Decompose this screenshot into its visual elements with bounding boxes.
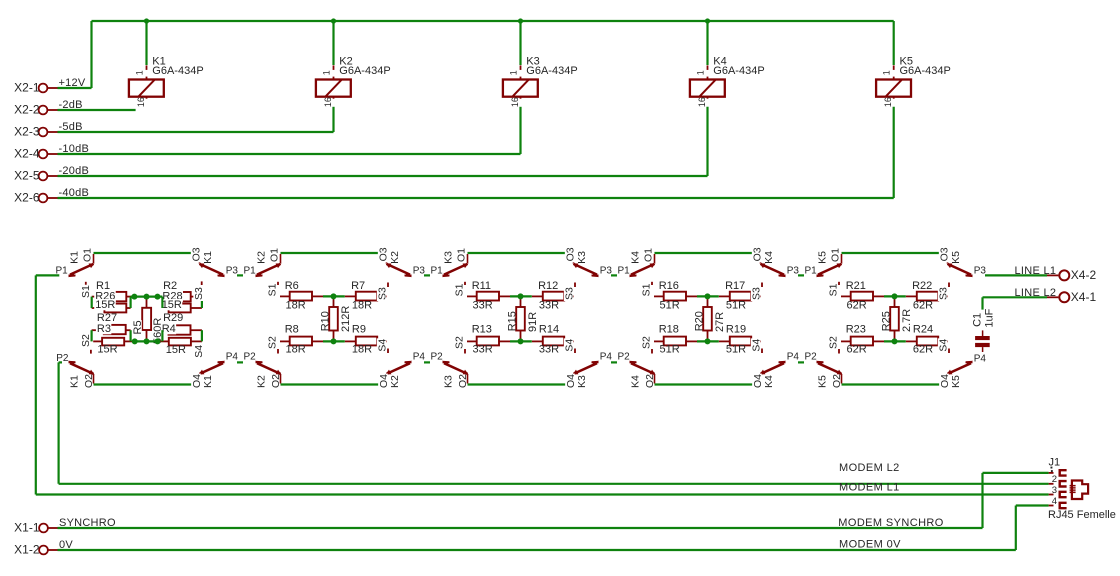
svg-text:X2-1: X2-1 (14, 81, 40, 95)
relay K1 coil box (129, 80, 164, 97)
relay contact K1 P3-O3 (218, 274, 225, 276)
net label S3 (377, 287, 387, 301)
svg-text:X2-5: X2-5 (14, 169, 40, 183)
wire node top (323, 295, 345, 297)
wire top rail cell K5 (842, 252, 948, 254)
svg-text:33R: 33R (539, 344, 559, 356)
connector X4-2 (1047, 274, 1058, 276)
relay K1 pin 16 label (137, 99, 148, 108)
svg-text:0V: 0V (59, 539, 73, 551)
relay K3 pin 16 (520, 97, 522, 107)
wire K4 coil drop (706, 21, 708, 65)
svg-text:S3: S3 (377, 287, 389, 300)
svg-text:1: 1 (882, 70, 892, 75)
svg-text:S4: S4 (751, 339, 763, 352)
svg-text:K3: K3 (443, 375, 455, 388)
wire K5 coil drop (893, 21, 895, 65)
relay K2 pin 1 (333, 65, 335, 79)
svg-text:RJ45 Femelle: RJ45 Femelle (1048, 509, 1116, 521)
net label S1 (641, 283, 651, 297)
wire node top (510, 295, 532, 297)
svg-text:P1: P1 (431, 265, 444, 276)
relay K2 pin 16 label (324, 99, 335, 108)
svg-text:X1-1: X1-1 (14, 521, 40, 535)
svg-text:K5: K5 (817, 251, 829, 264)
svg-text:K5: K5 (950, 375, 962, 388)
net label S3 (193, 287, 203, 301)
svg-text:33R: 33R (539, 300, 559, 312)
relay contact K3 P4-O4 (592, 361, 599, 363)
relay contact K5 P2-O2 (817, 361, 824, 363)
svg-text:MODEM L1: MODEM L1 (839, 482, 900, 494)
relay contact K4 P4-O4 (779, 361, 786, 363)
svg-text:K3: K3 (443, 251, 455, 264)
wire node bottom (884, 340, 906, 342)
svg-text:S2: S2 (266, 336, 278, 349)
svg-text:15R: 15R (95, 299, 115, 311)
relay contact K4 P2-O2 (630, 361, 637, 363)
svg-text:-5dB: -5dB (59, 121, 83, 133)
svg-text:X4-2: X4-2 (1071, 268, 1097, 282)
svg-text:R23: R23 (846, 323, 866, 335)
svg-text:G6A-434P: G6A-434P (900, 65, 951, 77)
net label S1 (454, 283, 464, 297)
net label S1 (267, 283, 277, 297)
wire P3-P1 link 4 (798, 274, 804, 276)
svg-text:R11: R11 (472, 280, 491, 292)
J1 pin 4 contact (1060, 503, 1067, 508)
J1 pin 3 contact (1060, 492, 1067, 497)
net label S2 (267, 336, 277, 350)
resistor R11 (467, 295, 477, 297)
relay contact K2 P3-O3 (405, 274, 412, 276)
svg-text:O4: O4 (378, 374, 390, 388)
svg-text:K1: K1 (69, 375, 81, 388)
relay K3 pin 1 (520, 65, 522, 79)
wire K1 coil drop (145, 21, 147, 65)
resistor pair R27/R3 leads (92, 329, 104, 331)
svg-text:P1: P1 (805, 265, 818, 276)
svg-text:16: 16 (136, 97, 146, 107)
wire pair connectors right (161, 297, 163, 308)
relay K4 coil box (690, 80, 725, 97)
svg-text:O1: O1 (829, 248, 841, 262)
label O3 (191, 247, 201, 262)
connector X2-1 (39, 84, 48, 93)
net stub S1 (85, 282, 87, 286)
resistor R18 (654, 340, 664, 342)
label O3 (378, 247, 388, 262)
svg-text:18R: 18R (352, 344, 372, 356)
net stub S2 (838, 349, 840, 354)
net label S2 (80, 334, 90, 348)
wire pair connectors bottom right (161, 330, 163, 341)
net stub S3 (387, 283, 389, 288)
resistor R21 (841, 295, 851, 297)
svg-text:P3: P3 (787, 265, 800, 276)
relay contact K1 P1-O1 (69, 274, 76, 276)
net stub S3 (761, 283, 763, 288)
resistor R1 (104, 292, 126, 301)
svg-text:LINE L1: LINE L1 (1015, 265, 1057, 277)
svg-text:X2-3: X2-3 (14, 125, 40, 139)
net label S4 (193, 345, 203, 359)
resistor pair R1/R26 leads (92, 296, 105, 298)
svg-text:2.7R: 2.7R (901, 309, 913, 332)
wire P1 feed from left (36, 274, 60, 276)
relay contact K1 P2-O2 (69, 361, 76, 363)
relay K5 pin 1 (893, 65, 895, 79)
wire K3 coil drop (519, 21, 521, 65)
svg-text:K1: K1 (202, 251, 214, 264)
svg-text:X2-2: X2-2 (14, 103, 40, 117)
svg-text:S2: S2 (640, 336, 652, 349)
relay K5 pin 16 label (885, 99, 896, 108)
svg-text:S1: S1 (80, 285, 92, 298)
svg-text:P3: P3 (226, 265, 239, 276)
connector X2-2 (39, 106, 48, 115)
J1 pin 1 stub (1049, 472, 1054, 474)
wire node top (697, 295, 719, 297)
svg-text:62R: 62R (913, 300, 933, 312)
svg-text:P2: P2 (244, 352, 257, 363)
svg-text:91R: 91R (527, 312, 539, 332)
relay K5 coil diagonal (886, 80, 902, 96)
svg-text:O1: O1 (642, 248, 654, 262)
relay contact K4 P3-O3 (779, 274, 786, 276)
svg-text:P3: P3 (413, 265, 426, 276)
resistor R2 (169, 292, 191, 301)
svg-text:S4: S4 (564, 339, 576, 352)
wire LINE L2 drop to C1 (981, 297, 983, 309)
wire MODEM L1 to J1 pin3 (36, 493, 1049, 495)
svg-text:R3: R3 (97, 323, 111, 335)
svg-text:S1: S1 (453, 283, 465, 296)
svg-text:R13: R13 (472, 323, 492, 335)
wire top rail cell K3 (468, 252, 574, 254)
net label S1 (828, 283, 838, 297)
svg-text:S3: S3 (193, 287, 205, 300)
svg-text:-2dB: -2dB (59, 99, 83, 111)
svg-text:S4: S4 (377, 339, 389, 352)
net stub S4 (574, 349, 576, 354)
connector X2-4 (39, 150, 48, 159)
label O3 (565, 247, 575, 262)
svg-text:P2: P2 (618, 352, 631, 363)
resistor R27 box (104, 325, 126, 334)
svg-text:LINE L2: LINE L2 (1015, 287, 1057, 299)
svg-text:15R: 15R (166, 344, 186, 356)
relay contact K3 P2-O2 (443, 361, 450, 363)
relay K4 pin 16 label (698, 99, 709, 108)
svg-text:K5: K5 (817, 375, 829, 388)
svg-text:P2: P2 (56, 353, 69, 364)
svg-text:S3: S3 (564, 287, 576, 300)
svg-text:62R: 62R (913, 344, 933, 356)
svg-text:-10dB: -10dB (59, 143, 90, 155)
svg-text:S2: S2 (80, 334, 92, 347)
svg-text:O1: O1 (455, 248, 467, 262)
svg-text:212R: 212R (340, 306, 352, 332)
relay K1 pin 1 label (137, 70, 148, 77)
svg-text:16: 16 (510, 97, 520, 107)
svg-text:51R: 51R (726, 300, 746, 312)
net stub S4 (201, 349, 203, 353)
svg-text:P1: P1 (618, 265, 631, 276)
svg-text:S3: S3 (938, 287, 950, 300)
resistor R7 (345, 295, 356, 297)
svg-text:S4: S4 (938, 339, 950, 352)
net stub S2 (464, 349, 466, 354)
net label S2 (828, 336, 838, 350)
svg-text:R7: R7 (351, 280, 365, 292)
svg-text:O2: O2 (457, 374, 469, 388)
resistor pair R2/R28 right leads (191, 296, 202, 298)
net label S2 (454, 336, 464, 350)
net label S2 (641, 336, 651, 350)
svg-text:O4: O4 (191, 374, 203, 388)
wire node bottom (697, 340, 719, 342)
svg-text:O4: O4 (565, 374, 577, 388)
relay K3 coil diagonal (513, 80, 529, 96)
svg-text:O1: O1 (81, 248, 93, 262)
svg-text:15R: 15R (162, 299, 182, 311)
svg-text:O3: O3 (378, 247, 390, 261)
wire -20dB to K4 pin16 (58, 175, 708, 177)
relay K2 pin 1 label (324, 70, 335, 77)
svg-text:R8: R8 (285, 323, 299, 335)
svg-text:K2: K2 (389, 251, 401, 264)
svg-text:K3: K3 (576, 375, 588, 388)
svg-text:C1: C1 (972, 313, 984, 327)
shunt resistor R20 (707, 296, 709, 307)
svg-text:O3: O3 (752, 247, 764, 261)
svg-text:R14: R14 (539, 323, 559, 335)
net label S1 (80, 285, 90, 299)
svg-text:-40dB: -40dB (59, 187, 90, 199)
J1 pin 3 stub (1049, 494, 1054, 496)
svg-text:1: 1 (134, 70, 144, 75)
svg-text:O3: O3 (939, 247, 951, 261)
relay K1 coil diagonal (139, 80, 155, 96)
svg-text:R25: R25 (880, 311, 892, 331)
svg-text:S1: S1 (827, 283, 839, 296)
net stub S3 (201, 281, 203, 285)
svg-text:15R: 15R (97, 344, 117, 356)
wire P2 riser MODEM L2 (57, 362, 59, 483)
net label S3 (751, 287, 761, 301)
svg-text:O2: O2 (644, 374, 656, 388)
relay contact K5 P3-O3 (966, 274, 973, 276)
svg-text:K3: K3 (576, 251, 588, 264)
label O4 (191, 374, 201, 389)
svg-text:R16: R16 (659, 280, 679, 292)
resistor R26 (104, 304, 126, 313)
relay contact K4 P1-O1 (630, 274, 637, 276)
svg-text:R21: R21 (846, 280, 866, 292)
svg-text:K1: K1 (69, 251, 81, 264)
wire P4-P2 link 1 (237, 361, 243, 363)
label O4 (378, 374, 388, 389)
svg-text:SYNCHRO: SYNCHRO (59, 517, 116, 529)
resistor R14 (532, 340, 543, 342)
J1 pin 2 contact (1060, 481, 1067, 486)
wire LINE L2 (983, 296, 1048, 298)
net stub S1 (838, 282, 840, 285)
svg-text:K4: K4 (763, 251, 775, 264)
svg-text:16: 16 (883, 97, 893, 107)
svg-text:S1: S1 (266, 283, 278, 296)
svg-text:3: 3 (1052, 485, 1057, 496)
net label S3 (938, 287, 948, 301)
svg-text:K2: K2 (256, 251, 268, 264)
svg-text:R17: R17 (725, 280, 745, 292)
svg-text:-20dB: -20dB (59, 165, 90, 177)
svg-text:P4: P4 (413, 352, 426, 363)
svg-text:51R: 51R (726, 344, 746, 356)
wire -5dB to K2 pin16 (58, 131, 334, 133)
svg-text:K4: K4 (763, 375, 775, 388)
resistor R29 box (169, 325, 191, 334)
wire P3-P1 link 1 (237, 274, 243, 276)
wire node bottom (323, 340, 345, 342)
J1 pin 4 stub (1049, 505, 1054, 507)
resistor R3 box (102, 338, 124, 346)
resistor R8 (280, 340, 290, 342)
svg-text:33R: 33R (473, 344, 493, 356)
net stub S3 (574, 283, 576, 288)
svg-text:1: 1 (695, 70, 705, 75)
wire -10dB to K3 pin16 (58, 153, 521, 155)
wire MODEM L2 to J1 pin2 (59, 483, 1049, 485)
wire bottom rail cell K4 (655, 383, 761, 385)
relay contact K5 P1-O1 (817, 274, 824, 276)
label O3 (939, 247, 949, 262)
net stub S1 (464, 282, 466, 285)
svg-text:MODEM L2: MODEM L2 (839, 462, 900, 474)
svg-text:+12V: +12V (59, 77, 86, 89)
svg-text:51R: 51R (660, 300, 680, 312)
svg-text:18R: 18R (286, 300, 306, 312)
relay K3 pin 1 label (511, 70, 522, 77)
svg-text:P4: P4 (226, 352, 239, 363)
shunt resistor R25 (894, 296, 896, 307)
svg-text:S3: S3 (751, 287, 763, 300)
svg-text:P4: P4 (600, 352, 613, 363)
relay contact K3 P3-O3 (592, 274, 599, 276)
net stub S4 (387, 349, 389, 354)
connector X2-5 (39, 172, 48, 181)
svg-text:R9: R9 (352, 323, 366, 335)
net label S4 (938, 338, 948, 352)
svg-text:1: 1 (508, 70, 518, 75)
wire bottom rail cell K1 (94, 383, 200, 385)
net stub S2 (277, 349, 279, 354)
resistor R12 (532, 295, 543, 297)
wire P4-P2 link 3 (611, 361, 617, 363)
svg-text:16: 16 (697, 97, 707, 107)
wire top rail cell K1 (94, 252, 200, 254)
net stub S4 (948, 349, 950, 354)
wire bottom rail cell K3 (468, 383, 574, 385)
svg-text:O2: O2 (270, 374, 282, 388)
svg-text:P1: P1 (56, 265, 69, 276)
relay K4 pin 16 (707, 97, 709, 107)
svg-text:62R: 62R (847, 344, 867, 356)
svg-text:R18: R18 (659, 323, 679, 335)
svg-text:MODEM SYNCHRO: MODEM SYNCHRO (838, 517, 943, 529)
svg-text:18R: 18R (286, 344, 306, 356)
svg-text:R4: R4 (162, 323, 176, 335)
relay K2 coil box (316, 80, 351, 97)
svg-text:2: 2 (1052, 474, 1057, 485)
net label S4 (377, 338, 387, 352)
svg-text:O4: O4 (752, 374, 764, 388)
svg-text:51R: 51R (660, 344, 680, 356)
wire K2 coil drop (332, 21, 334, 65)
resistor R22 (906, 295, 917, 297)
connector X1-2 (39, 546, 48, 555)
wire MODEM SYNCHRO (58, 527, 983, 529)
net stub S4 (761, 349, 763, 354)
svg-text:33R: 33R (473, 300, 493, 312)
svg-text:S1: S1 (640, 283, 652, 296)
wire P3-P1 link 2 (424, 274, 430, 276)
net stub S1 (277, 282, 279, 285)
resistor R17 (719, 295, 730, 297)
svg-text:K2: K2 (256, 375, 268, 388)
shunt resistor R15 (520, 296, 522, 307)
svg-text:X4-1: X4-1 (1071, 290, 1097, 304)
label O4 (565, 374, 575, 389)
svg-text:O2: O2 (83, 374, 95, 388)
relay K1 pin 16 (146, 97, 148, 107)
relay K1 pin 1 (146, 65, 148, 79)
resistor R24 (906, 340, 917, 342)
svg-text:MODEM 0V: MODEM 0V (839, 539, 901, 551)
relay K4 pin 1 label (698, 70, 709, 77)
svg-text:K2: K2 (389, 375, 401, 388)
wire top rail cell K4 (655, 252, 761, 254)
svg-text:S2: S2 (827, 336, 839, 349)
RJ45 jack body (1072, 481, 1088, 500)
svg-text:R15: R15 (506, 311, 518, 331)
svg-text:G6A-434P: G6A-434P (526, 65, 577, 77)
svg-text:G6A-434P: G6A-434P (152, 65, 203, 77)
relay K2 coil diagonal (326, 80, 342, 96)
svg-text:4: 4 (1052, 496, 1057, 507)
net stub S1 (651, 282, 653, 285)
svg-text:18R: 18R (352, 300, 372, 312)
svg-text:P4: P4 (787, 352, 800, 363)
wire MODEM L1 riser (35, 275, 37, 494)
wire node bottom (510, 340, 532, 342)
wire pair connectors bottom left (90, 330, 92, 341)
resistor R9 (345, 340, 356, 342)
resistor R19 (719, 340, 730, 342)
relay contact K5 P4-O4 (966, 361, 973, 363)
J1 pin 1 contact (1060, 470, 1067, 475)
svg-text:S4: S4 (193, 345, 205, 358)
label O4 (939, 374, 949, 389)
svg-text:X1-2: X1-2 (14, 543, 40, 557)
svg-text:O2: O2 (831, 374, 843, 388)
shunt resistor R5 560R (146, 297, 148, 308)
connector X4-1 (1047, 296, 1058, 298)
label O4 (752, 374, 762, 389)
net stub S2 (651, 349, 653, 354)
wire bottom rail cell K2 (281, 383, 387, 385)
